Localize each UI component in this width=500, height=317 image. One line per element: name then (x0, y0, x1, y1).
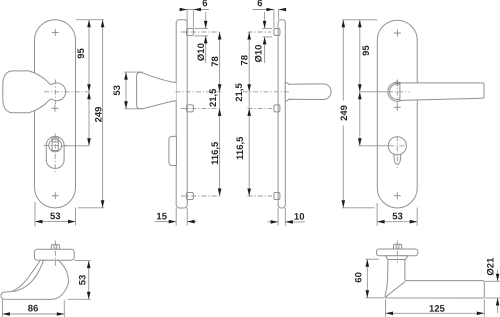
svg-text:Ø10: Ø10 (196, 43, 207, 61)
svg-text:10: 10 (294, 212, 305, 223)
svg-text:15: 15 (156, 211, 167, 222)
svg-text:53: 53 (77, 275, 88, 286)
svg-text:Ø10: Ø10 (254, 45, 265, 63)
svg-text:21,5: 21,5 (208, 88, 219, 107)
svg-text:21,5: 21,5 (234, 83, 245, 102)
svg-text:78: 78 (210, 56, 221, 67)
svg-text:86: 86 (28, 303, 39, 314)
svg-text:Ø21: Ø21 (486, 257, 497, 276)
svg-text:53: 53 (392, 211, 403, 222)
svg-text:125: 125 (429, 304, 446, 315)
svg-text:249: 249 (339, 105, 350, 121)
svg-text:6: 6 (202, 0, 207, 9)
svg-text:6: 6 (257, 0, 262, 9)
svg-text:53: 53 (50, 211, 61, 222)
svg-text:95: 95 (76, 48, 87, 59)
svg-text:116,5: 116,5 (210, 141, 221, 165)
svg-text:95: 95 (361, 45, 372, 56)
svg-text:116,5: 116,5 (235, 136, 246, 160)
svg-text:78: 78 (239, 55, 250, 66)
svg-text:53: 53 (112, 85, 123, 96)
svg-text:60: 60 (353, 272, 364, 283)
svg-text:249: 249 (94, 107, 105, 123)
